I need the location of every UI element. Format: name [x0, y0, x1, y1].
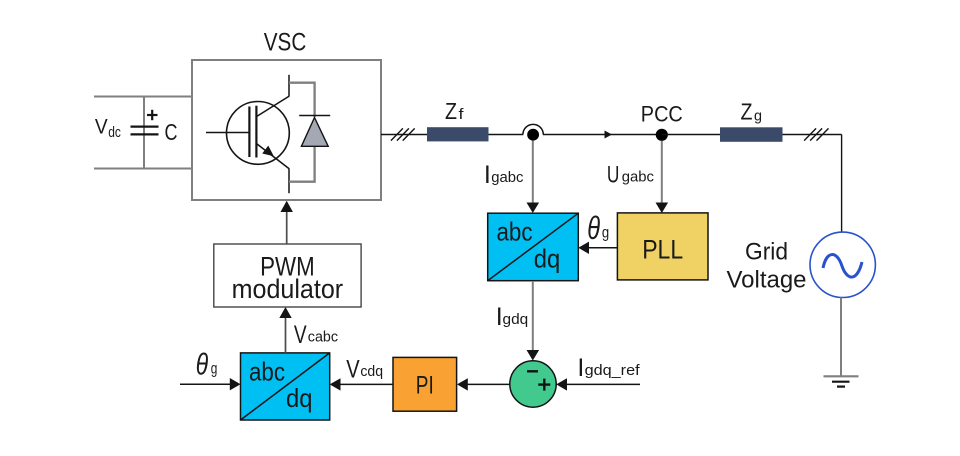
transistor Q1 (IGBT) — [206, 75, 289, 193]
impedance Zg — [720, 127, 783, 142]
node PCC — [656, 129, 668, 141]
svg-text:Voltage: Voltage — [727, 266, 807, 293]
svg-text:U: U — [607, 162, 620, 189]
signal Vcabc wire — [279, 307, 291, 353]
ground — [824, 376, 859, 386]
wire VSC output — [381, 134, 427, 136]
arrow theta-g into abc/dq2 — [180, 378, 241, 390]
svg-text:gdq: gdq — [503, 311, 529, 328]
wire DC top rail — [94, 96, 192, 98]
svg-text:Z: Z — [741, 98, 753, 124]
svg-text:dq: dq — [286, 383, 313, 413]
svg-text:Grid: Grid — [745, 239, 788, 266]
svg-text:cabc: cabc — [308, 329, 339, 346]
diode D1 — [299, 116, 330, 147]
svg-text:dc: dc — [108, 125, 121, 141]
current sensor node — [523, 124, 543, 140]
source V grid — [810, 232, 875, 297]
wire source to ground — [840, 298, 842, 377]
svg-text:modulator: modulator — [232, 274, 344, 304]
signal Igdq_ref wire — [556, 378, 640, 390]
PWM modulator block — [214, 244, 361, 307]
capacitor C — [131, 97, 159, 169]
PI block — [393, 357, 457, 411]
wire arrow mid — [605, 131, 613, 139]
svg-text:abc: abc — [249, 356, 285, 386]
svg-text:VSC: VSC — [264, 29, 307, 57]
svg-text:PCC: PCC — [641, 101, 683, 126]
svg-text:dq: dq — [534, 244, 561, 274]
svg-text:gdq_ref: gdq_ref — [585, 362, 641, 379]
signal Igabc drop wire — [532, 141, 534, 206]
svg-text:gabc: gabc — [491, 169, 524, 186]
svg-text:abc: abc — [497, 217, 533, 247]
svg-text:Z: Z — [445, 98, 457, 124]
VSC box — [192, 60, 381, 200]
three-phase slashes left — [391, 128, 415, 140]
wire DC bottom rail — [94, 168, 192, 170]
svg-text:g: g — [211, 360, 218, 377]
arrow theta-g PLL to abc/dq — [578, 242, 617, 254]
svg-text:V: V — [346, 355, 360, 383]
arrow PI to abc/dq2 — [330, 378, 393, 390]
abc/dq block U2 — [488, 213, 579, 281]
svg-text:PLL: PLL — [642, 234, 683, 264]
diode D1 branch wires — [289, 83, 315, 182]
svg-text:V: V — [294, 321, 307, 349]
arrow sum to PI — [457, 378, 510, 390]
svg-text:PI: PI — [416, 372, 434, 400]
svg-text:g: g — [754, 108, 762, 125]
svg-text:I: I — [484, 161, 491, 189]
svg-text:V: V — [95, 115, 108, 139]
signal Igdq wire — [532, 281, 534, 353]
abc/dq block U3 — [241, 353, 330, 420]
three-phase slashes right — [804, 128, 828, 140]
wire Zg to corner — [783, 134, 842, 136]
arrow PWM to VSC — [281, 201, 293, 244]
PLL block — [617, 213, 708, 280]
wire down to source — [841, 135, 843, 233]
signal Ugabc drop wire — [661, 141, 663, 205]
wire Zf to PCC — [489, 134, 524, 136]
impedance Zf — [427, 127, 489, 141]
svg-text:I: I — [577, 354, 584, 382]
svg-text:θ: θ — [196, 347, 209, 382]
svg-text:g: g — [602, 225, 609, 242]
svg-text:C: C — [165, 119, 178, 145]
svg-text:θ: θ — [587, 210, 600, 246]
svg-text:gabc: gabc — [622, 169, 655, 186]
summing junction S1 — [510, 361, 556, 407]
wire PCC to Zg — [662, 134, 720, 136]
svg-text:cdq: cdq — [360, 363, 383, 380]
